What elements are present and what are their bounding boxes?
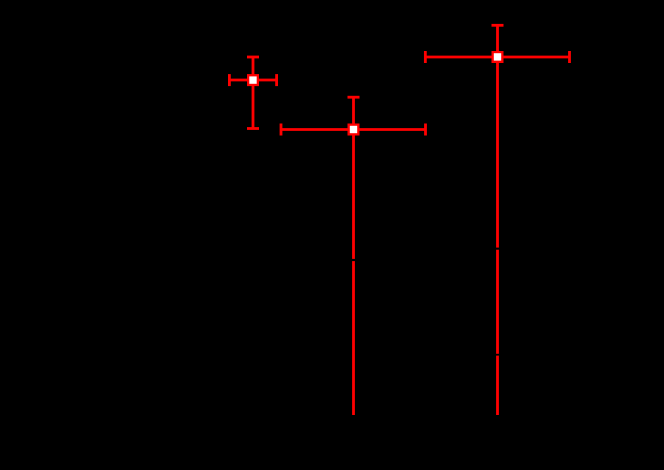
- P1 bottom cap: [247, 127, 259, 130]
- P2 left cap: [280, 124, 283, 136]
- data point 3 error bars: [425, 25, 569, 415]
- marker P1 (open square, white fill, red edge): [247, 74, 259, 86]
- black curve crossing P3 y-error bar (lower): [495, 354, 501, 356]
- P2 y-error bar (clipped at frame bottom): [352, 97, 355, 415]
- P2 top cap: [348, 96, 360, 99]
- P1 x-error bar: [229, 79, 276, 82]
- black curve crossing P2 y-error bar: [351, 259, 357, 261]
- P3 y-error bar (clipped at frame bottom): [496, 25, 499, 415]
- P2 x-error bar: [281, 128, 426, 131]
- P3 top cap: [492, 24, 504, 27]
- P2 right cap: [424, 124, 427, 136]
- black curve crossing P3 y-error bar (upper): [495, 248, 501, 250]
- marker P3: [492, 51, 504, 63]
- P1 y-error bar: [252, 57, 255, 129]
- P1 left cap: [228, 74, 231, 86]
- P1 top cap: [247, 56, 259, 59]
- P3 x-error bar: [425, 56, 569, 59]
- P1 right cap: [275, 74, 278, 86]
- P3 right cap: [568, 51, 571, 63]
- data point 2 error bars: [281, 97, 426, 415]
- data point 1 error bars: [229, 57, 276, 129]
- marker P2: [348, 124, 360, 136]
- P3 left cap: [424, 51, 427, 63]
